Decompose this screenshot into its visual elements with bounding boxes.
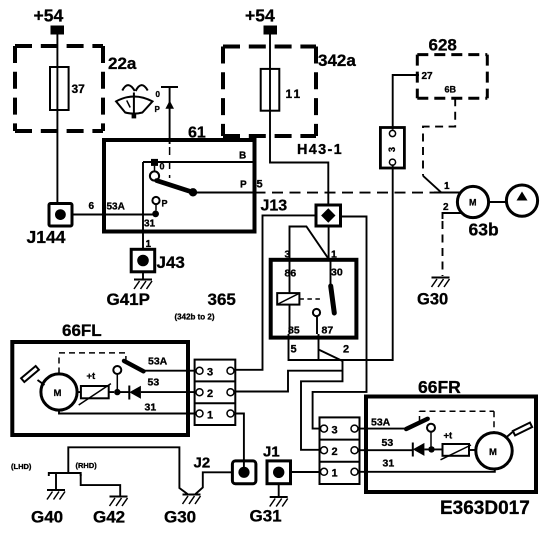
wire J2 to ground G30 <box>196 472 233 494</box>
wire J1 to ground G31 <box>278 484 280 496</box>
fuse box 342a <box>223 45 316 49</box>
ground G30 <box>183 495 201 505</box>
svg-text:2: 2 <box>207 388 213 400</box>
svg-text:342a: 342a <box>318 51 356 70</box>
svg-text:(LHD): (LHD) <box>11 462 32 471</box>
contact 0 <box>154 166 156 171</box>
svg-text:G41P: G41P <box>107 290 150 309</box>
junction J144 <box>27 204 73 248</box>
motor 66FR <box>476 433 512 469</box>
svg-text:3: 3 <box>332 425 338 437</box>
svg-text:0: 0 <box>156 90 161 99</box>
svg-text:6: 6 <box>89 201 95 212</box>
wire J1 to 66FR pin1 <box>291 471 321 473</box>
svg-text:J2: J2 <box>194 455 211 472</box>
control unit 628 <box>417 53 487 56</box>
svg-text:5: 5 <box>291 344 297 356</box>
diode 66FL <box>117 377 196 400</box>
svg-text:G30: G30 <box>164 508 196 527</box>
svg-text:5: 5 <box>257 179 263 191</box>
relay box J13 <box>271 260 357 338</box>
wire 53A from J144 <box>72 214 156 216</box>
svg-text:53A: 53A <box>107 202 125 213</box>
thermal resistor +t 66FR <box>441 431 477 460</box>
junction J2 <box>194 455 256 484</box>
wiper control line into switch 61 <box>161 87 178 178</box>
wire fuse 37 feed <box>56 35 58 204</box>
wire to G42 <box>81 474 121 496</box>
wire 31 66FR <box>358 469 495 472</box>
wire 63b pin 2 to ground <box>443 213 463 219</box>
junction J1 <box>263 444 291 484</box>
wire 87 branch to 66FL pin2 <box>234 371 343 392</box>
svg-text:J13: J13 <box>261 198 288 215</box>
thermal resistor +t 66FL <box>77 371 114 405</box>
fuse 37 <box>50 67 69 110</box>
svg-text:+54: +54 <box>34 6 64 26</box>
wire 628 pin 27 to connector H43 <box>393 75 419 130</box>
fuse 11 <box>261 69 280 111</box>
relay switch arm <box>330 260 332 285</box>
relay coil <box>277 260 299 334</box>
svg-text:+t: +t <box>444 431 454 442</box>
washer pump <box>489 185 538 216</box>
mech link dashed 66FL <box>59 353 126 374</box>
wire P output <box>193 192 253 194</box>
wire 628 pin 6B dashed to motor 63b <box>423 98 455 176</box>
svg-text:H43-1: H43-1 <box>297 142 343 158</box>
svg-text:2: 2 <box>343 344 349 356</box>
svg-text:1: 1 <box>332 468 338 480</box>
svg-text:1: 1 <box>444 181 450 192</box>
svg-text:31: 31 <box>383 458 395 470</box>
ground G41P <box>134 280 152 290</box>
svg-text:53: 53 <box>148 377 160 389</box>
diode 66FR <box>413 443 443 457</box>
ground G30 right <box>432 278 450 288</box>
svg-text:J144: J144 <box>27 227 66 247</box>
svg-text:66FL: 66FL <box>62 321 102 340</box>
svg-text:31: 31 <box>144 219 156 230</box>
svg-text:2: 2 <box>443 202 449 213</box>
svg-text:11: 11 <box>286 87 303 101</box>
wire ground link G40/G42 to G30 <box>68 447 187 494</box>
svg-text:63b: 63b <box>469 220 499 240</box>
svg-text:61: 61 <box>188 125 206 142</box>
svg-text:+t: +t <box>87 371 97 382</box>
wire J43 to ground <box>142 272 144 279</box>
wiper-washer icon <box>116 85 160 118</box>
park switch blade 66FL <box>124 361 144 371</box>
wire 66FL pin1 to J2 <box>234 414 244 471</box>
wire fuse 11 feed <box>270 35 328 206</box>
motor 63b <box>457 186 498 239</box>
wire J13 to relay 30 <box>328 226 330 260</box>
junction dot 53A <box>152 211 159 218</box>
park contact 66FL <box>113 366 121 374</box>
svg-text:P: P <box>162 199 168 209</box>
motor 66FL <box>41 374 77 410</box>
wire H43 down to relay 85 net <box>289 164 393 360</box>
svg-text:53A: 53A <box>148 356 168 368</box>
svg-text:(RHD): (RHD) <box>76 461 98 470</box>
svg-text:+54: +54 <box>245 6 275 26</box>
svg-text:3: 3 <box>207 367 213 379</box>
contact P <box>152 197 159 204</box>
svg-text:B: B <box>239 151 246 162</box>
svg-text:37: 37 <box>72 82 86 96</box>
svg-text:G30: G30 <box>417 291 448 309</box>
svg-text:27: 27 <box>422 71 434 82</box>
relay mech link dashed <box>299 298 323 300</box>
svg-text:66FR: 66FR <box>418 377 461 397</box>
svg-text:30: 30 <box>331 267 343 279</box>
svg-text:M: M <box>54 388 62 399</box>
svg-text:87: 87 <box>322 325 334 337</box>
wire 31 to J43 <box>142 162 144 249</box>
wire relay 86 feed <box>290 227 329 261</box>
wire P park dashed to motor 63b <box>255 192 435 194</box>
connector block 66FL <box>195 360 236 425</box>
junction J43 <box>131 249 185 272</box>
wire B line <box>143 161 253 163</box>
wire 31 66FL <box>59 410 196 414</box>
mech link dashed 66FR <box>420 411 495 431</box>
wire J13 left branch to 66FL 53A <box>234 215 316 369</box>
connector H43-1 (3) <box>380 128 404 169</box>
svg-text:53A: 53A <box>371 417 391 429</box>
svg-text:E363D017: E363D017 <box>440 498 530 519</box>
wiper motor box 66FR <box>366 397 536 493</box>
park contact 66FR <box>427 424 435 432</box>
svg-text:53: 53 <box>382 437 394 449</box>
svg-text:P: P <box>240 180 247 191</box>
wiper motor box 66FL <box>12 342 188 435</box>
svg-text:J43: J43 <box>157 253 185 272</box>
svg-text:G42: G42 <box>93 508 125 527</box>
svg-text:1: 1 <box>207 409 213 421</box>
switch arm <box>157 181 193 193</box>
wire 53A 66FL <box>144 370 197 372</box>
wire J13 right branch to 66FR 53A <box>313 217 367 429</box>
svg-text:628: 628 <box>429 36 457 55</box>
svg-text:2: 2 <box>332 446 338 458</box>
relay contact 87 <box>313 309 320 316</box>
wire 53A 66FR <box>358 428 406 430</box>
wire to G40 <box>55 474 57 489</box>
switch box 61 <box>104 140 255 232</box>
svg-text:22a: 22a <box>108 54 137 73</box>
svg-text:G31: G31 <box>250 507 282 526</box>
svg-text:M: M <box>489 447 497 458</box>
fuse box 22a <box>15 44 103 48</box>
svg-text:J1: J1 <box>263 444 280 461</box>
svg-text:365: 365 <box>208 290 236 309</box>
svg-text:6B: 6B <box>445 85 457 95</box>
LHD/RHD ground bracket <box>49 473 81 476</box>
svg-text:P: P <box>155 105 161 114</box>
park switch blade 66FR <box>406 419 428 429</box>
connector block 66FR <box>320 417 360 484</box>
svg-text:M: M <box>469 198 477 208</box>
wire 53 66FR <box>358 449 413 451</box>
svg-text:G40: G40 <box>31 508 63 527</box>
svg-text:0: 0 <box>160 162 165 172</box>
svg-text:31: 31 <box>145 402 157 414</box>
svg-text:(342b to 2): (342b to 2) <box>175 313 215 322</box>
svg-text:3: 3 <box>387 147 397 152</box>
wiper arm 66FR <box>506 423 533 438</box>
wiper arm 66FL <box>21 366 44 385</box>
